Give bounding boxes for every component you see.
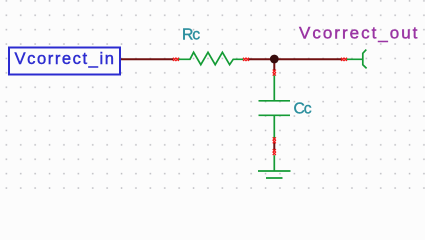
- svg-text:Vcorrect_out: Vcorrect_out: [299, 23, 419, 42]
- svg-text:Cc: Cc: [294, 100, 312, 117]
- svg-text:Rc: Rc: [182, 27, 200, 44]
- svg-text:Vcorrect_in: Vcorrect_in: [15, 49, 116, 68]
